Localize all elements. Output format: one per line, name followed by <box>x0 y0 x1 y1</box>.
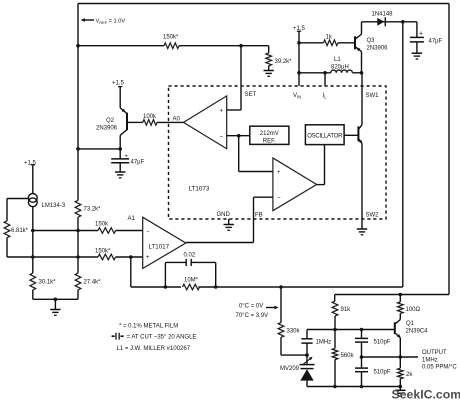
svg-text:SeekIC.com: SeekIC.com <box>392 387 460 401</box>
svg-text:+1.5: +1.5 <box>293 26 306 32</box>
svg-text:47µF: 47µF <box>429 39 443 45</box>
svg-text:OSCILLATOR: OSCILLATOR <box>307 134 343 140</box>
svg-text:1k: 1k <box>326 35 333 41</box>
svg-text:SW1: SW1 <box>366 93 380 99</box>
svg-text:−: − <box>220 134 224 140</box>
svg-text:+: + <box>124 153 128 160</box>
svg-text:2N39C4: 2N39C4 <box>406 329 429 335</box>
svg-text:2N3906: 2N3906 <box>96 126 118 132</box>
svg-text:REF.: REF. <box>263 138 276 144</box>
svg-text:27.4k*: 27.4k* <box>84 280 102 286</box>
svg-text:73.2k*: 73.2k* <box>84 207 102 213</box>
svg-text:Q1: Q1 <box>406 321 415 327</box>
svg-text:100k: 100k <box>143 114 157 120</box>
svg-text:100Ω: 100Ω <box>406 307 421 313</box>
svg-text:0.05 PPM/°C: 0.05 PPM/°C <box>422 365 457 371</box>
svg-text:IL: IL <box>323 93 328 100</box>
svg-text:SET: SET <box>245 92 257 98</box>
svg-text:LT1073: LT1073 <box>189 186 210 193</box>
svg-text:FB: FB <box>255 213 263 219</box>
svg-text:47µF: 47µF <box>131 160 145 166</box>
svg-text:VIN: VIN <box>293 93 301 100</box>
svg-text:+1.5: +1.5 <box>112 80 125 86</box>
svg-text:GND: GND <box>217 212 231 218</box>
svg-text:A0: A0 <box>173 117 181 123</box>
svg-text:−: − <box>277 196 281 202</box>
svg-text:= AT CUT –35° 20 ANGLE: = AT CUT –35° 20 ANGLE <box>127 335 197 341</box>
svg-text:−: − <box>146 229 150 235</box>
svg-text:39.2k*: 39.2k* <box>275 59 293 65</box>
svg-text:212mV: 212mV <box>260 131 279 137</box>
svg-text:70°C = 3.9V: 70°C = 3.9V <box>236 313 269 319</box>
svg-text:30.1k*: 30.1k* <box>39 280 57 286</box>
svg-text:MV209: MV209 <box>280 366 300 372</box>
svg-text:91k: 91k <box>341 307 352 313</box>
svg-text:+: + <box>220 109 224 115</box>
svg-text:+: + <box>146 255 150 261</box>
svg-text:OUTPUT: OUTPUT <box>422 350 447 356</box>
svg-text:2k: 2k <box>406 372 413 378</box>
svg-text:L1 = J.W. MILLER #100267: L1 = J.W. MILLER #100267 <box>117 346 191 352</box>
svg-text:1MHz: 1MHz <box>422 357 438 363</box>
svg-text:0°C = 0V: 0°C = 0V <box>239 304 263 310</box>
svg-text:* = 0.1% METAL FILM: * = 0.1% METAL FILM <box>119 323 178 329</box>
svg-text:150k: 150k <box>95 222 109 228</box>
svg-text:0.02: 0.02 <box>184 253 196 259</box>
svg-text:1N4148: 1N4148 <box>372 12 394 18</box>
svg-text:1MHz: 1MHz <box>316 340 332 346</box>
svg-text:+1.5: +1.5 <box>24 161 37 167</box>
svg-text:2N3906: 2N3906 <box>367 46 389 52</box>
svg-text:L1: L1 <box>334 57 341 63</box>
svg-text:6.81k*: 6.81k* <box>11 228 29 234</box>
svg-text:Q2: Q2 <box>106 118 115 124</box>
svg-text:LT1017: LT1017 <box>149 244 170 251</box>
svg-text:510pF: 510pF <box>374 370 391 376</box>
svg-text:150k*: 150k* <box>163 35 179 41</box>
svg-text:510pF: 510pF <box>374 340 391 346</box>
svg-text:10M*: 10M* <box>184 277 199 283</box>
svg-text:+: + <box>419 30 423 37</box>
svg-text:150k*: 150k* <box>95 249 111 255</box>
svg-text:820µH: 820µH <box>331 65 349 71</box>
svg-text:LM134-3: LM134-3 <box>42 203 66 209</box>
svg-text:A1: A1 <box>128 216 136 222</box>
svg-text:SW2: SW2 <box>366 213 380 219</box>
svg-text:VREF = 1.0V: VREF = 1.0V <box>96 18 126 25</box>
svg-text:560k: 560k <box>341 353 355 359</box>
svg-text:330k: 330k <box>287 329 301 335</box>
svg-text:Q3: Q3 <box>367 38 376 44</box>
svg-text:+: + <box>277 170 281 176</box>
